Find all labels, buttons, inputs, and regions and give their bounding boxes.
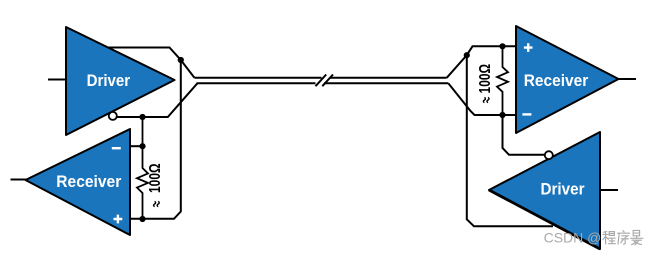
svg-text:CSDN @: CSDN @ (544, 230, 602, 246)
svg-text:Driver: Driver (87, 71, 131, 90)
svg-text:Driver: Driver (541, 180, 585, 199)
svg-text:100Ω: 100Ω (147, 163, 164, 193)
svg-text:Receiver: Receiver (524, 71, 589, 90)
svg-text:Receiver: Receiver (56, 172, 121, 191)
svg-text:100Ω: 100Ω (477, 64, 494, 94)
